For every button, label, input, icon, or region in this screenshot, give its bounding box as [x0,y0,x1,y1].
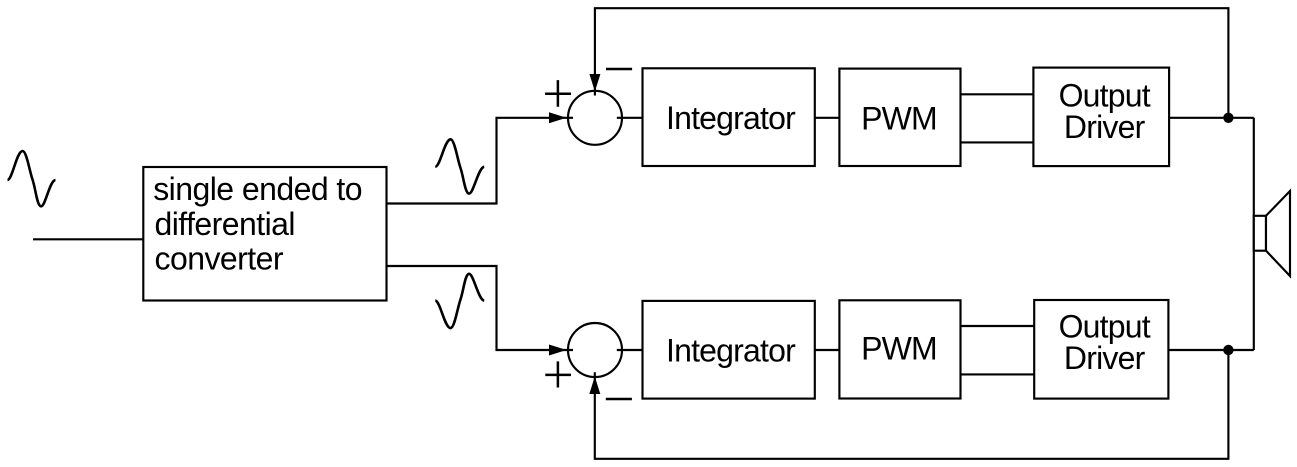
wire bottom junction to integrator [617,349,643,351]
wire output driver bottom to speaker [1168,349,1253,351]
wire top junction to integrator [617,117,643,119]
input wire [33,238,143,240]
block: single ended to differential converter [143,167,386,301]
wire integrator to PWM bottom [815,349,840,351]
junction node top [1223,113,1233,123]
wire PWM to output driver top (upper) [961,93,1034,95]
junction node bottom [1223,345,1233,355]
svg-text:Integrator: Integrator [666,100,796,136]
svg-text:single ended todifferentialcon: single ended todifferentialconverter [153,171,362,277]
svg-text:PWM: PWM [861,331,937,367]
wire converter top output [387,118,574,204]
wire PWM to output driver bottom (lower) [961,373,1035,375]
svg-text:PWM: PWM [861,101,937,137]
arrowhead into top summing junction (top) [589,74,600,92]
input sine wave icon [8,151,56,206]
svg-text:OutputDriver: OutputDriver [1059,308,1151,376]
block: Integrator bottom [643,301,815,399]
plus sign top [545,80,571,107]
arrowhead into top summing junction (left) [549,112,567,123]
block: Integrator top [643,68,815,166]
svg-text:Integrator: Integrator [666,333,796,369]
wire PWM to output driver bottom (upper) [961,325,1035,327]
feedback wire bottom [595,350,1229,459]
wire integrator to PWM top [815,117,840,119]
sine icon top (non-inverted) [435,139,484,193]
minus sign bottom [606,398,632,401]
summing junction bottom [568,323,622,377]
plus sign bottom [545,361,571,387]
wire output driver top to speaker [1169,117,1254,119]
feedback wire top [595,8,1229,118]
wire converter bottom output [387,266,574,350]
arrowhead into bottom summing junction (bottom) [589,377,600,395]
block: Output Driver top [1033,68,1169,167]
minus sign top [606,68,632,71]
summing junction top [568,91,622,145]
block: Output Driver bottom [1034,300,1168,399]
block: PWM bottom [839,300,960,398]
block: PWM top [839,69,960,166]
speaker cone [1266,191,1290,276]
svg-text:OutputDriver: OutputDriver [1059,78,1151,145]
speaker vertical bus wire [1253,118,1255,350]
sine icon bottom (inverted) [435,274,484,328]
arrowhead into bottom summing junction (left) [549,345,567,356]
wire PWM to output driver top (lower) [961,141,1034,143]
speaker body rectangle [1254,216,1266,251]
